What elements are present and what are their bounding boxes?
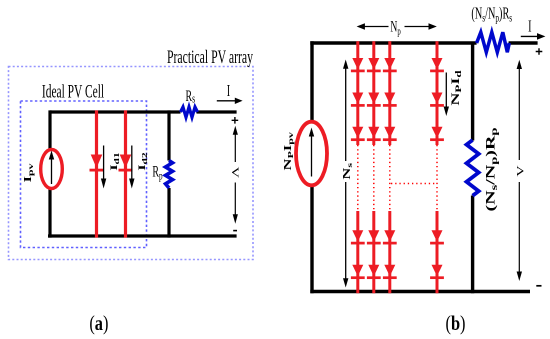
svg-text:I: I — [227, 82, 231, 100]
svg-text:V: V — [230, 167, 240, 179]
svg-text:Ideal PV Cell: Ideal PV Cell — [42, 82, 104, 102]
svg-text:I: I — [528, 17, 532, 35]
svg-text:(b): (b) — [445, 312, 465, 335]
svg-text:(Ns/Np)Rp: (Ns/Np)Rp — [483, 127, 499, 211]
svg-text:(Ns/Np)Rs: (Ns/Np)Rs — [471, 4, 512, 25]
svg-text:Practical PV array: Practical PV array — [167, 47, 253, 67]
svg-text:V: V — [515, 165, 525, 177]
svg-text:(a): (a) — [89, 312, 108, 335]
